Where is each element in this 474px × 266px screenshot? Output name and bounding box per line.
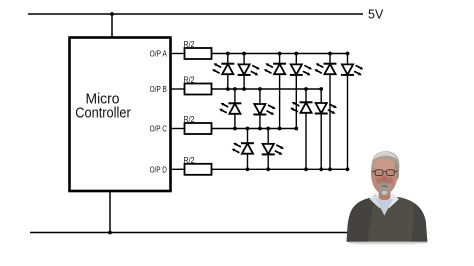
wire: column A-D left [329,54,331,170]
wire: column C-D right [267,129,269,170]
wire: O/P A pin to resistor RA [170,53,185,55]
wire: column A-B right [243,54,245,90]
resistor RD (R/2) [185,164,212,175]
resistor RB (R/2) [185,84,212,95]
resistor RA (R/2) [185,48,212,59]
wire: bottom 0V rail [30,232,352,234]
shadow under cut-out [349,242,427,244]
node: junctions on row line B [226,87,323,91]
wire: column A-B left [227,54,229,90]
LED D11 (C to D, up) [232,143,254,154]
svg-text:O/P B: O/P B [150,85,168,94]
svg-text:R/2: R/2 [184,114,195,124]
hair [371,151,399,180]
wire: row line D [212,168,350,170]
LED D9 (B to D, up) [290,102,312,113]
head [371,154,397,195]
wire: column A-C right [295,54,297,129]
svg-text:O/P D: O/P D [150,165,167,174]
LED D5 (A to D, up) [314,63,336,74]
wire: 5V supply rail [28,13,363,15]
svg-text:R/2: R/2 [184,39,195,49]
wire: O/P C pin to resistor RC [170,128,185,130]
wire: column B-C right [259,89,261,129]
node: junctions on row line A [226,52,349,56]
svg-text:R/2: R/2 [184,75,195,85]
wire: O/P B pin to resistor RB [170,88,185,90]
glasses [372,170,398,176]
wire: column A-D right [347,54,349,170]
LED D7 (B to C, up) [219,103,241,114]
LED D10 (B to D, down) [315,103,337,114]
wire: O/P D pin to resistor RD [170,168,185,170]
wire: column C-D left [247,129,249,170]
LED D1 (A to B, up) [212,63,234,74]
wire: row line B [212,88,324,90]
svg-text:O/P C: O/P C [150,125,167,134]
wire: column B-C left [234,89,236,129]
LED D12 (C to D, down) [262,144,284,155]
LED D3 (A to C, up) [264,63,286,74]
svg-text:O/P A: O/P A [150,50,168,59]
moustache and beard [377,184,392,196]
LED D6 (A to D, down) [341,64,363,75]
node: junctions on row line C [233,127,298,131]
resistor RC (R/2) [185,123,212,134]
presenter webcam cut-out overlay [347,151,428,244]
svg-text:Controller: Controller [75,106,131,122]
wire: row line A [212,53,350,55]
wire: row line C [212,128,299,130]
svg-text:5V: 5V [368,7,384,21]
node: junctions on row line D [246,167,350,171]
node: junction on 0V rail [108,231,112,235]
microcontroller U1 body [70,38,171,192]
wire: 5V rail to microcontroller top [111,14,113,38]
svg-text:R/2: R/2 [184,155,195,165]
wire: column B-D right [320,89,322,169]
torso sweater [347,196,428,242]
LED D8 (B to C, down) [253,104,275,115]
wire: column B-D left [305,89,307,169]
shirt collar [369,193,382,208]
wire: microcontroller bottom to 0V rail [109,191,111,233]
neck and chin [378,188,391,201]
node: junction on 5V rail [110,12,114,16]
LED D2 (A to B, down) [238,64,260,75]
wire: column A-C left [279,54,281,129]
LED D4 (A to C, down) [290,64,312,75]
